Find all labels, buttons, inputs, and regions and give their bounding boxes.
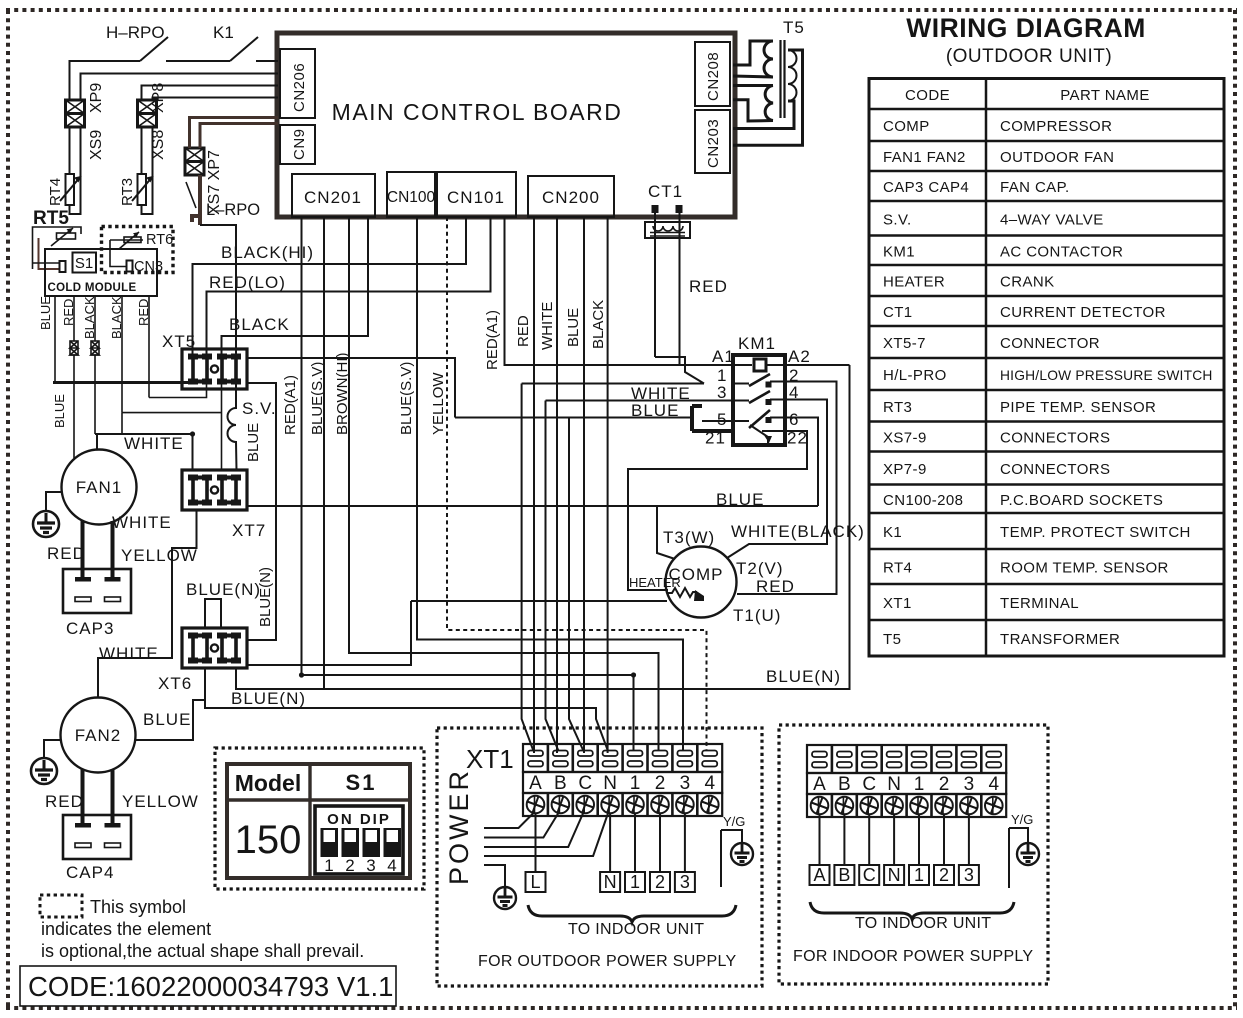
svg-text:TEMP. PROTECT SWITCH: TEMP. PROTECT SWITCH [1000,524,1191,541]
wire XT5 bottom right to XT6 top right [247,383,276,640]
svg-text:COMPRESSOR: COMPRESSOR [1000,118,1112,135]
marker 1 [625,872,645,892]
svg-text:WHITE: WHITE [99,644,159,663]
connector XT6 [158,628,247,693]
svg-text:T5: T5 [883,631,901,648]
svg-text:1: 1 [630,872,640,892]
wire T5 secondary top to CN203 [733,50,803,145]
wire CN208 pin1 to T5 primary top [733,41,773,65]
svg-text:3: 3 [964,865,974,885]
ground (Y/G outdoor) [731,843,753,865]
wire CN101 yellow dashed to terminal 4 [447,217,707,751]
svg-text:C: C [862,774,876,795]
wire indoor screw 3 down [968,814,970,865]
wire CN201 pin1 down (RED A1 to neutral bus) [301,217,303,675]
wire BLACK(HI) CN101 to XT5 [193,217,467,356]
wire indoor screw N down [893,814,895,865]
wire KM1 row6 to comp T3 (BLUE) [657,418,818,560]
marker N (indoor) [884,865,904,885]
svg-text:XS9: XS9 [88,130,105,160]
wire indoor screw 1 down [918,814,920,865]
module wire RED 2 [136,296,151,398]
svg-text:XT1: XT1 [883,595,912,612]
marker 3 (indoor) [959,865,979,885]
svg-text:XP8: XP8 [150,83,167,113]
svg-text:Y/G: Y/G [1011,812,1033,827]
socket CN203 [695,110,730,173]
motor FAN1 [62,450,137,525]
wire KM1 row5/row21 thick corner [692,406,733,431]
svg-text:4: 4 [387,856,396,875]
wire BLACK CN201 to XT5 [222,217,369,356]
svg-text:BLUE(N): BLUE(N) [186,580,261,599]
wire power feeds [484,813,534,828]
svg-text:CONNECTORS: CONNECTORS [1000,430,1110,447]
svg-text:RT3: RT3 [119,178,136,206]
svg-text:indicates the element: indicates the element [41,919,211,939]
svg-text:Y/G: Y/G [723,814,745,829]
svg-text:TO INDOOR UNIT: TO INDOOR UNIT [568,921,704,938]
wire CN200 pin2 down to terminal B [556,217,558,753]
connector XP8/XS8 [138,83,168,160]
svg-text:ON DIP: ON DIP [327,811,391,828]
connector XT7 [182,470,266,540]
svg-text:OUTDOOR FAN: OUTDOOR FAN [1000,149,1114,166]
wire screw A to L box [535,813,537,872]
brace to indoor unit [528,905,736,922]
wire module BLACK2 to XT5 and down to XT7 [122,383,222,470]
svg-text:T1(U): T1(U) [733,606,781,625]
svg-text:BLUE: BLUE [245,423,262,462]
wire RED(LO) CN101 to XT5 [207,217,491,356]
svg-text:RED(A1): RED(A1) [282,375,299,435]
wire XP8 right pin to CN206 [153,98,279,101]
svg-text:CONNECTORS: CONNECTORS [1000,461,1110,478]
socket CN208 [695,42,730,106]
wire CT1 left lead down [654,213,656,357]
svg-text:RT3: RT3 [883,399,912,416]
module wire BLACK 1 [82,296,97,434]
svg-text:3: 3 [680,872,690,892]
svg-text:CONNECTOR: CONNECTOR [1000,335,1100,352]
svg-text:C: C [863,865,876,885]
svg-text:XT7: XT7 [232,521,266,540]
svg-text:RED: RED [45,792,84,811]
terminal block (indoor) [807,745,1006,817]
module wire BLACK 2 [109,296,124,413]
svg-text:RED(LO): RED(LO) [209,273,286,292]
marker 1 (indoor) [909,865,929,885]
wire XT6 right to heater riser [248,601,411,665]
svg-text:2: 2 [655,773,666,794]
brace to indoor unit (indoor box) [810,902,1014,919]
svg-text:CN3: CN3 [134,259,163,275]
svg-text:RED: RED [689,277,728,296]
wire XT7 bottom right to comp T3 chain [247,505,818,507]
svg-text:2: 2 [939,865,949,885]
module wire RED 1 [61,296,76,455]
svg-text:RED: RED [756,577,795,596]
svg-text:2: 2 [345,856,354,875]
svg-text:S.V.: S.V. [883,211,912,228]
main control board U-MAIN [277,33,735,217]
capacitor CAP3 [63,569,131,638]
wire indoor screw 2 down [943,814,945,865]
wire fan2 blue to XT6 [135,668,205,740]
motor FAN2 [61,698,136,773]
wire L-RPO to XT5 pin [200,225,236,356]
svg-text:L–RPO: L–RPO [206,201,260,219]
wire CN201 pin2 down [323,217,325,689]
svg-text:B: B [838,865,850,885]
svg-text:XP7-9: XP7-9 [883,461,927,478]
marker L [526,872,546,892]
wire indoor screw A down [819,814,821,865]
wire CN101 pin to KM1 A1 [505,217,734,365]
wire CN208 pin3 to T5 primary2 top [733,84,773,87]
svg-text:CN201: CN201 [304,188,362,207]
terminal XT1 [466,744,722,816]
svg-text:CAP3: CAP3 [66,619,114,638]
svg-text:CURRENT DETECTOR: CURRENT DETECTOR [1000,304,1166,321]
svg-text:3: 3 [964,774,975,795]
svg-text:4: 4 [989,774,1000,795]
marker 2 [650,872,670,892]
code box [20,966,396,1006]
svg-text:T5: T5 [783,18,805,37]
svg-text:RED: RED [515,315,532,347]
wire indoor screw C down [868,814,870,865]
svg-text:TERMINAL: TERMINAL [1000,595,1079,612]
svg-text:KM1: KM1 [883,243,915,260]
connector XS7/XP7 [185,148,223,215]
svg-text:PART NAME: PART NAME [1060,87,1149,104]
ground (fan1) [33,511,59,537]
wire CT1 right lead down (RED to A1) [679,213,681,365]
svg-text:WHITE: WHITE [112,513,172,532]
svg-text:FAN2: FAN2 [75,726,122,745]
wire KM1 row4 to comp T2 WHITE(BLACK) [727,400,827,559]
svg-text:CT1: CT1 [883,304,913,321]
dip switch S1 [315,806,403,875]
svg-text:XT5-7: XT5-7 [883,335,926,352]
svg-text:4–WAY VALVE: 4–WAY VALVE [1000,211,1104,228]
svg-text:CN206: CN206 [291,63,308,112]
svg-text:L: L [530,872,540,892]
svg-text:RED(A1): RED(A1) [484,310,501,370]
svg-text:XP9: XP9 [88,83,105,113]
svg-text:3: 3 [717,383,727,402]
wire CN100 pin down to terminal 3 feed [417,217,683,751]
svg-text:S1: S1 [346,770,377,795]
svg-text:BLUE: BLUE [565,308,582,347]
svg-text:BLUE(N): BLUE(N) [766,667,841,686]
valve coil S.V. [228,383,277,470]
svg-text:CT1: CT1 [648,182,683,201]
connector CN3 [127,259,164,275]
neutral bus wire CN201 to terminal 1 [302,675,634,751]
parts table [869,79,1224,657]
svg-text:FOR OUTDOOR POWER SUPPLY: FOR OUTDOOR POWER SUPPLY [478,953,737,970]
svg-text:5: 5 [717,410,727,429]
wire fan1 to cap3 (yellow) [111,521,115,578]
svg-text:1: 1 [630,773,641,794]
svg-text:BLUE: BLUE [143,710,191,729]
marker A (indoor) [810,865,830,885]
svg-text:BLUE: BLUE [716,490,764,509]
ground (fan2) [31,758,57,784]
svg-text:MAIN CONTROL BOARD: MAIN CONTROL BOARD [332,99,623,125]
svg-text:3: 3 [366,856,375,875]
svg-text:XT6: XT6 [158,674,192,693]
svg-text:COMP: COMP [883,118,930,135]
thermistor RT5 [33,208,82,269]
svg-text:HEATER: HEATER [629,575,681,590]
svg-text:HIGH/LOW PRESSURE SWITCH: HIGH/LOW PRESSURE SWITCH [1000,368,1213,383]
svg-text:1: 1 [914,865,924,885]
wire module BLUE to XT5 bottom (thick) [55,381,191,383]
svg-text:P.C.BOARD SOCKETS: P.C.BOARD SOCKETS [1000,492,1163,509]
svg-text:FAN1: FAN1 [76,478,123,497]
marker N [600,872,620,892]
legend optional symbol [40,895,364,961]
svg-text:CN100-208: CN100-208 [883,492,963,509]
svg-text:PIPE TEMP. SENSOR: PIPE TEMP. SENSOR [1000,399,1156,416]
svg-text:WHITE(BLACK): WHITE(BLACK) [731,522,865,541]
svg-text:TO INDOOR UNIT: TO INDOOR UNIT [855,915,991,932]
socket CN101 [437,172,516,217]
svg-text:B: B [554,773,567,794]
svg-text:RT6: RT6 [146,232,173,248]
svg-text:is optional,the actual shape s: is optional,the actual shape shall preva… [41,941,364,961]
contactor KM1 [702,334,811,448]
wire CN200 pin1 down to terminal A [533,217,535,753]
svg-text:FAN1 FAN2: FAN1 FAN2 [883,149,966,166]
svg-text:3: 3 [680,773,691,794]
wire XT5 top row to S.V. line right [247,358,455,418]
svg-text:C: C [578,773,592,794]
svg-text:CN100: CN100 [387,189,436,206]
svg-text:CAP4: CAP4 [66,863,114,882]
wire screw 3 down [684,813,686,872]
wire CN208 pin4 to T5 primary2 bottom [733,100,773,121]
svg-text:H/L-PRO: H/L-PRO [883,367,947,384]
svg-text:2: 2 [939,774,950,795]
socket CN201 [292,174,375,217]
svg-text:(OUTDOOR UNIT): (OUTDOOR UNIT) [946,46,1112,67]
wire fan1 to cap3 (red) [81,521,85,578]
indoor power supply dashed box [779,725,1048,984]
module wire BLUE [38,296,55,381]
svg-text:RT5: RT5 [33,208,69,229]
svg-text:XS7-9: XS7-9 [883,430,927,447]
svg-text:KM1: KM1 [738,334,776,353]
wire screw N down [609,813,611,872]
svg-text:BLACK: BLACK [229,315,290,334]
wire KM1 row22 to heater chain [628,431,807,590]
model S1 dashed box [215,748,424,889]
svg-text:CN9: CN9 [291,128,308,160]
svg-text:RT4: RT4 [47,178,64,206]
wire fan2 to cap4 (red) [81,769,85,824]
svg-text:A: A [813,865,825,885]
wire XT7 to fan2 white chain [98,510,197,697]
connector XT5 [162,332,247,389]
marker B (indoor) [834,865,854,885]
svg-text:AC CONTACTOR: AC CONTACTOR [1000,243,1123,260]
wire fan2 to cap4 (yellow) [111,769,115,824]
svg-text:1: 1 [914,774,925,795]
svg-text:BLUE(N): BLUE(N) [231,689,306,708]
svg-text:WHITE: WHITE [539,302,556,350]
model table [227,764,410,878]
svg-text:COLD MODULE: COLD MODULE [48,282,137,294]
connector XP9/XS9 [66,83,106,160]
wire XT6 top loop [205,599,221,628]
thermistor RT3 [119,127,153,214]
wire CN200 pin4 down to terminal N [607,217,609,753]
wire CN201 pin3 down to terminal 2 feed [349,217,659,751]
svg-text:CAP3 CAP4: CAP3 CAP4 [883,179,969,196]
svg-text:CRANK: CRANK [1000,274,1055,291]
svg-text:CN200: CN200 [542,188,600,207]
wire CT1 chain to KM1 row1 [655,357,704,384]
compressor COMP [629,547,737,618]
cold module box [45,249,157,296]
svg-text:BLUE(S.V): BLUE(S.V) [398,362,415,435]
switch S1 (module) [73,253,97,273]
wire XP8 left pin to CN206 [142,86,279,101]
svg-text:CN203: CN203 [705,119,722,168]
svg-text:CODE:16022000034793 V1.1: CODE:16022000034793 V1.1 [28,971,393,1002]
svg-text:A: A [813,774,826,795]
svg-text:WIRING DIAGRAM: WIRING DIAGRAM [906,13,1146,43]
marker 3 [675,872,695,892]
ground (Y/G indoor) [1017,843,1039,865]
svg-text:YELLOW: YELLOW [122,792,199,811]
svg-text:K1: K1 [213,23,234,42]
small connector on BLACK1 [91,341,99,355]
svg-text:6: 6 [789,410,799,429]
svg-text:CN208: CN208 [705,52,722,101]
svg-text:N: N [887,774,901,795]
svg-text:21: 21 [705,429,726,448]
wire KM1 row2 to comp T1 (RED) [737,382,837,595]
svg-text:FAN CAP.: FAN CAP. [1000,179,1070,196]
svg-text:N: N [604,872,617,892]
wire XP7 pins to CN9 (dark pair) [190,118,279,149]
svg-text:YELLOW: YELLOW [430,372,447,435]
wire KM1 row1 lead with tap to terminal A [522,384,704,752]
marker C (indoor) [859,865,879,885]
svg-text:TRANSFORMER: TRANSFORMER [1000,631,1120,648]
switch K1 [213,23,258,61]
wire fan1 to ground [46,492,62,511]
svg-text:RED: RED [47,544,86,563]
wire fan1 blue feed [73,455,75,458]
svg-text:CN101: CN101 [447,188,505,207]
wire CN200 pin3 down to terminal C [583,217,585,753]
wire heater lead from left [411,600,667,602]
wire fan2 to ground [44,740,61,758]
svg-text:H–RPO: H–RPO [106,23,165,42]
svg-text:S.V.: S.V. [242,399,277,418]
svg-text:CODE: CODE [905,87,950,104]
wire top line via H-RPO and K1 to board [70,61,279,100]
svg-text:BLACK: BLACK [590,300,607,349]
svg-text:S1: S1 [75,255,93,272]
svg-text:Model: Model [235,770,301,796]
wire screw 2 down [659,813,661,872]
svg-text:YELLOW: YELLOW [121,546,198,565]
svg-text:A2: A2 [788,347,811,366]
transformer T5 [733,18,805,145]
svg-text:150: 150 [235,818,302,862]
socket CN206 [280,49,315,118]
socket CN100 [387,172,436,217]
wire T5 secondary bottom to CN203 [733,101,794,129]
wire indoor screw B down [843,814,845,865]
thermistor RT4 [47,127,81,214]
wire KM1 row5 lead with tap to terminal C [455,418,692,752]
svg-text:B: B [838,774,851,795]
svg-text:2: 2 [655,872,665,892]
wire module RED2 to XT5 [149,383,207,398]
svg-text:POWER: POWER [444,768,474,885]
wire CN208 pin2 to T5 primary [733,76,773,77]
svg-text:RT4: RT4 [883,560,912,577]
svg-text:WHITE: WHITE [124,434,184,453]
svg-text:HEATER: HEATER [883,274,945,291]
socket CN200 [528,176,614,217]
wire KM1 row3 lead with tap to terminal B [546,401,734,752]
svg-text:ROOM TEMP. SENSOR: ROOM TEMP. SENSOR [1000,560,1169,577]
svg-text:BLUE(N): BLUE(N) [257,567,274,627]
svg-text:T3(W): T3(W) [663,528,715,547]
switch L-RPO [186,175,260,225]
svg-text:N: N [603,773,617,794]
socket CN9 [280,125,315,164]
svg-text:A1: A1 [712,347,735,366]
svg-text:FOR INDOOR POWER SUPPLY: FOR INDOOR POWER SUPPLY [793,948,1033,965]
wire XP9 right pin to CN206 [81,74,279,101]
svg-text:N: N [888,865,901,885]
svg-text:BLUE: BLUE [52,394,67,428]
wire KM1 A2 out [785,364,850,366]
dashed optional box RT6 [102,227,174,273]
switch H-RPO [106,23,168,61]
thermistor RT6 [110,232,173,267]
outdoor power supply dashed box [437,728,762,986]
wire XT6 bottom left to terminal N (BLUE N) [205,668,608,751]
svg-text:This symbol: This symbol [90,897,186,917]
wire fan1 white to XT7 [95,434,193,470]
wire screw 1 down [634,813,636,872]
wire XT6 bottom right to A2 riser [236,365,850,689]
svg-text:4: 4 [705,773,716,794]
capacitor CAP4 [63,815,131,882]
svg-text:A: A [529,773,542,794]
marker 2 (indoor) [934,865,954,885]
svg-text:BLACK(HI): BLACK(HI) [221,243,314,262]
svg-text:BLUE: BLUE [38,296,53,330]
current detector CT1 [645,182,690,238]
ground (power) [494,887,516,909]
svg-text:1: 1 [324,856,333,875]
svg-text:T2(V): T2(V) [736,559,784,578]
module input connector [60,261,66,272]
svg-text:K1: K1 [883,524,902,541]
